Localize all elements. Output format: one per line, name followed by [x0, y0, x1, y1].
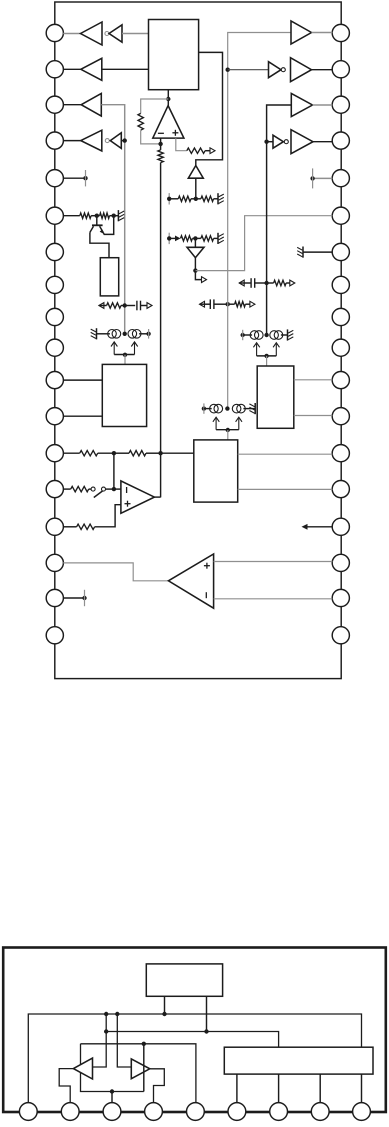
wire Q1 emitter to block B5 — [90, 232, 109, 257]
wire B4 to pin25 — [294, 415, 333, 417]
block B3 — [194, 440, 238, 502]
buffer A3 (row2 left) — [81, 58, 102, 80]
buffer A1 (row1 left) — [81, 22, 103, 45]
arrow CS1 down — [111, 342, 117, 355]
arrow out (C1) — [147, 303, 152, 309]
U3 minus label — [205, 592, 207, 598]
arrow out (N5) — [202, 277, 207, 283]
inverter bubble A2 — [105, 32, 109, 36]
block B7 (wide box) — [224, 1047, 373, 1074]
arrow CS5 down — [253, 343, 259, 356]
transistor Q1 base wire — [96, 216, 98, 226]
wire pin14 to R15 — [63, 488, 70, 490]
capacitor C2 — [251, 278, 255, 288]
op-amp U2 — [121, 481, 154, 513]
resistor R11 — [274, 280, 287, 285]
inverter bubble A10 — [281, 68, 285, 72]
stub bar N3-left — [168, 193, 170, 204]
wire CS join to block B4 — [266, 356, 268, 366]
bottom pin 3 — [103, 1103, 121, 1121]
wire pin1 to buffer A1 — [63, 33, 80, 35]
pin 35 (right) — [332, 61, 349, 78]
block B2 — [102, 364, 146, 426]
CS arrows join bar — [114, 354, 134, 356]
transistor Q1 collector arrow — [100, 229, 104, 234]
pin 23 (right) — [332, 481, 349, 498]
IC1 outer package outline — [55, 2, 341, 679]
wire A16 out to pin4 — [150, 1069, 165, 1103]
stub bar pin5 — [85, 170, 87, 186]
wire B4 to pin26 — [294, 379, 333, 381]
wire arrow-R10 — [99, 305, 107, 307]
pin 14 (left) — [46, 481, 63, 498]
pin 6 (left) — [46, 207, 63, 224]
pin 3 (left) — [46, 96, 63, 113]
resistor R13 — [80, 451, 98, 456]
pin 7 (left) — [46, 243, 63, 260]
wire R3 to minus node — [141, 130, 161, 144]
wire A14 to pin33 — [313, 141, 332, 143]
gray rail right (from row1) — [228, 33, 291, 409]
stub bar N4-left — [168, 233, 170, 244]
CS5/6 join bar — [257, 355, 277, 357]
pin 27 (right) — [332, 339, 349, 356]
transistor Q1 base bar — [92, 224, 103, 226]
pin 24 (right) — [332, 445, 349, 462]
wire B1 bottom to op-amp U1 — [167, 90, 169, 106]
wire R12-arrow — [245, 303, 250, 305]
buffer A4 (row3 left) — [81, 93, 101, 116]
pin 36 (right) — [332, 24, 349, 41]
current source CS1 — [108, 330, 121, 339]
wire pin2 to buffer A3 — [63, 68, 81, 70]
op-amp U3 — [168, 554, 213, 608]
pin 5 (left) — [46, 170, 63, 187]
pin 4 (left) — [46, 132, 63, 149]
switch S1 lever — [94, 490, 104, 498]
stub bar pin17 — [84, 590, 86, 606]
current source CS5 — [250, 331, 263, 340]
stub bar CS2 end — [148, 329, 150, 339]
pin 10 (left) — [46, 339, 63, 356]
resistor R8 — [181, 236, 193, 241]
wire N5 to pin31 — [195, 216, 332, 271]
resistor R10 — [107, 303, 121, 308]
wire drop to bottom rail — [143, 1044, 145, 1092]
bottom rail wire — [81, 1044, 144, 1092]
node CS join — [123, 353, 127, 357]
inverter bubble A13 — [284, 140, 288, 144]
node mid-CS left — [202, 406, 206, 410]
capacitor C1 — [137, 301, 141, 311]
wire mid-CS a — [204, 408, 212, 410]
U1 plus label — [172, 130, 178, 136]
wire pin13 to R13 — [63, 452, 79, 454]
arrow into pin22 — [302, 524, 308, 530]
node bus1-V2 — [115, 1012, 119, 1016]
bottom pin 7 — [270, 1103, 288, 1121]
arrow out (row304) — [250, 301, 255, 307]
inverter A10 (row2 right) — [269, 62, 282, 78]
resistor R1 — [80, 213, 91, 218]
node N3-left — [167, 197, 171, 201]
wire A4 down long gray rail — [101, 105, 124, 334]
wire G5-CS1 — [97, 333, 110, 335]
pin 30 (right) — [332, 243, 349, 260]
wire rail to C1 — [125, 305, 136, 307]
bottom pin 6 — [228, 1103, 246, 1121]
pin 33 (right) — [332, 132, 349, 149]
wire pin11 to B2 — [63, 379, 102, 381]
node bus2-V1 — [104, 1029, 108, 1033]
wire U1 minus input — [160, 138, 162, 144]
wire pin4 to buffer A5 — [63, 140, 81, 142]
node bus1-B6 — [162, 1012, 166, 1016]
wire pin36-row5 stub — [313, 177, 333, 179]
node bus1-V1 — [104, 1012, 108, 1016]
wire V2 to right buffer — [117, 1014, 131, 1067]
wire CS join to block B3 — [227, 430, 229, 440]
capacitor C3 — [210, 299, 214, 309]
wire CS2-stub — [139, 333, 149, 335]
wire R10 to rail — [121, 305, 125, 307]
block B1 — [149, 20, 199, 90]
wire U2 output — [154, 496, 160, 498]
inverter A6 (row4 left) — [110, 133, 121, 149]
transistor Q1 collector — [100, 226, 104, 232]
diode arrow D1 — [175, 236, 181, 242]
U3 plus label — [204, 563, 210, 569]
resistor R7 — [201, 196, 214, 201]
inverter bubble A6 — [105, 139, 109, 143]
wire N4 to buffer A8 — [194, 238, 196, 247]
node CS row left — [123, 332, 127, 336]
wire B3 to pin24 — [238, 453, 333, 455]
stub bar row5 right — [312, 168, 314, 188]
node N2 — [112, 214, 116, 218]
wire R7 to ground — [214, 198, 218, 200]
wire Q1 collector to N2 — [103, 216, 114, 235]
wire pin17 stub — [63, 597, 84, 599]
wire R1-R2 — [91, 215, 100, 217]
wire R15 to switch — [89, 488, 91, 490]
node row5 right — [310, 176, 314, 180]
wire R13 to node — [98, 452, 114, 454]
wire V1 to left buffer — [93, 1014, 107, 1067]
bottom pin 1 — [19, 1103, 37, 1121]
node U1 minus — [158, 142, 162, 146]
node row4/gray rail — [123, 138, 127, 142]
wire CS join to block B2 — [124, 355, 126, 365]
pin 25 (right) — [332, 408, 349, 425]
U2 minus label — [126, 487, 128, 493]
wire row13 to B3 — [161, 452, 194, 454]
wire N3a — [169, 198, 178, 200]
wire A15 out to pin2 — [59, 1069, 73, 1103]
buffer A7 (pointing up) — [188, 166, 203, 179]
bottom pin 5 — [187, 1103, 205, 1121]
transistor Q1 emitter — [90, 226, 94, 232]
pin 29 (right) — [332, 276, 349, 293]
wire right-CS a — [243, 334, 252, 336]
ground G3 — [218, 233, 224, 244]
pin 12 (left) — [46, 408, 63, 425]
op-amp U1 — [153, 106, 184, 139]
wire U3 plus to pin21 — [214, 561, 333, 563]
current source CS3 — [210, 404, 223, 413]
wire pin3 stub — [111, 1092, 113, 1104]
wire R8-N4 — [192, 237, 201, 239]
node pin5 — [83, 176, 87, 180]
pin 26 (right) — [332, 372, 349, 389]
buffer A11 (row2 right) — [291, 58, 312, 82]
wire R11-arrow — [286, 282, 290, 284]
pin 13 (left) — [46, 445, 63, 462]
buffer A15 (left) — [73, 1058, 92, 1079]
wire U1 plus input — [176, 138, 187, 151]
node bottom rail pin3 — [110, 1089, 114, 1093]
bus2 wire — [106, 1032, 278, 1048]
node row2-right rail — [226, 68, 230, 72]
ground G1 — [118, 210, 124, 221]
arrow CS2 down — [131, 342, 137, 355]
resistor R5 — [187, 148, 205, 153]
resistor R9 — [201, 236, 214, 241]
arrow in (left row) — [99, 303, 104, 309]
arrow in (row304) — [200, 301, 205, 307]
wire node-R12 — [228, 303, 235, 305]
wire A12 to pin34 — [313, 104, 333, 106]
wire pin30 to ground — [303, 251, 332, 253]
pin 9 (left) — [46, 308, 63, 325]
buffer A9 (row1 right) — [291, 21, 312, 44]
resistor R12 — [235, 302, 246, 307]
node N4-left — [167, 236, 171, 240]
node left-rail-C1 — [123, 303, 127, 307]
pin 15 (left) — [46, 518, 63, 535]
ground G2 — [218, 193, 224, 204]
pin 19 (right) — [332, 627, 349, 644]
wire R4 top — [160, 144, 162, 150]
node fb2 — [158, 451, 162, 455]
node line3 drop — [142, 1042, 146, 1046]
buffer A12 (row3 right) — [291, 93, 312, 116]
long rail minus-to-U2 — [160, 163, 162, 498]
buffer A14 (row4 right) — [291, 130, 313, 154]
pin 20 (right) — [332, 589, 349, 606]
pin 21 (right) — [332, 554, 349, 571]
wire R6-N3 — [191, 198, 201, 200]
arrow out (R5) — [210, 148, 215, 154]
node gray-rail-304 — [226, 302, 230, 306]
wire B7 to pin8 — [319, 1074, 321, 1103]
wire R2 to ground — [110, 215, 119, 217]
stub bar right-CS left — [242, 330, 244, 340]
wire B6 to bus2 — [206, 996, 208, 1031]
wire A6 input junction — [121, 140, 124, 142]
wire U2 plus input — [95, 505, 121, 527]
pin 17 (left) — [46, 589, 63, 606]
wire node to inverter A13 — [267, 141, 273, 143]
pin 34 (right) — [332, 96, 349, 113]
wire B3 to pin23 — [238, 488, 333, 490]
arrow in (row283) — [239, 280, 244, 286]
wire A7 to row N3 — [195, 178, 197, 199]
node pin17 — [82, 596, 86, 600]
wire pin22 arrow — [308, 526, 333, 528]
resistor R16 — [77, 524, 95, 529]
node mid-CS rail — [225, 406, 229, 410]
pin 32 (right) — [332, 170, 349, 187]
wire pin16 to U3 output — [63, 563, 168, 581]
IC2 outer package outline — [3, 948, 386, 1113]
node right-CS rail — [264, 333, 268, 337]
bottom pin 2 — [61, 1103, 79, 1121]
node row4-right rail — [264, 140, 268, 144]
wire C3 to gray rail — [214, 303, 228, 305]
node rail283 — [264, 281, 268, 285]
pin 11 (left) — [46, 372, 63, 389]
block B6 (top box) — [146, 964, 222, 996]
bottom pin 8 — [311, 1103, 329, 1121]
wire row3 input + dark rail — [267, 105, 292, 335]
resistor R14 — [129, 451, 146, 456]
wire CS4 to ground — [243, 408, 255, 410]
wire B7 to pin7 — [278, 1074, 280, 1103]
pin 8 (left) — [46, 276, 63, 293]
wire pin6 to R1 — [63, 215, 80, 217]
resistor R3 (U1 feedback) — [138, 113, 143, 130]
wire pin12 to B2 — [63, 415, 102, 417]
CS3/4 join bar — [216, 429, 239, 431]
bottom pin 9 — [353, 1103, 371, 1121]
pin 2 (left) — [46, 61, 63, 78]
ground G6 (at B4 edge) — [249, 403, 255, 414]
wire B6 to bus1 — [164, 996, 166, 1014]
pin 16 (left) — [46, 554, 63, 571]
wire A2 to block B1 — [122, 33, 149, 35]
line3 wire — [81, 1044, 196, 1103]
wire arrow-C3 — [200, 303, 211, 305]
switch S1 contact b — [102, 487, 106, 491]
resistor R6 — [178, 196, 191, 201]
wire B7 to pin6 — [236, 1074, 238, 1103]
arrow CS3 down — [213, 417, 219, 430]
node right-CS left — [241, 333, 245, 337]
inverter A2 (row1 left) — [109, 25, 122, 42]
wire node to R14 — [114, 452, 129, 454]
wire A3 to block B1 — [102, 68, 149, 70]
wire fb vertical — [113, 453, 115, 489]
node B1-U1 — [166, 97, 170, 101]
node CS2 end — [146, 332, 150, 336]
wire B7 to pin9 — [361, 1074, 363, 1103]
node CS3/4 join — [226, 428, 230, 432]
wire pin5 stub — [63, 177, 85, 179]
block B5 — [100, 258, 118, 296]
current source CS4 — [232, 404, 245, 413]
wire C2 to node — [255, 282, 267, 284]
pin 22 (right) — [332, 518, 349, 535]
switch S1 contact a — [91, 487, 95, 491]
wire U3 minus to pin20 — [214, 598, 333, 600]
wire switch to minus — [106, 488, 121, 490]
arrow out (row283) — [290, 280, 295, 286]
wire B1 right to limiter — [196, 52, 223, 165]
wire R5 to arrow — [205, 150, 210, 152]
U2 plus label — [125, 501, 131, 507]
node fb1 — [112, 451, 116, 455]
ground G4 (pin30) — [297, 247, 303, 258]
wire R9 to ground — [214, 237, 218, 239]
wire R14 to node2 — [146, 452, 161, 454]
arrow CS6 down — [273, 343, 279, 356]
pin 28 (right) — [332, 308, 349, 325]
pin 1 (left) — [46, 24, 63, 41]
U1 minus label — [158, 132, 164, 134]
wire CS6 to ground — [281, 334, 288, 336]
node N3 — [194, 197, 198, 201]
node CS5/6 join — [264, 354, 268, 358]
buffer A8 (pointing down) — [187, 247, 204, 257]
buffer A5 (row4 left) — [81, 130, 102, 151]
inverter A13 (row4 right) — [273, 135, 283, 148]
bottom pin 4 — [145, 1103, 163, 1121]
resistor R4 — [158, 150, 163, 163]
wire node-R11 — [267, 282, 274, 284]
node N4 — [193, 236, 197, 240]
resistor R2 — [100, 213, 110, 218]
wire pin15 to R16 — [63, 526, 76, 528]
resistor R15 — [71, 486, 89, 491]
current source CS2 — [128, 330, 141, 339]
wire pin3 to buffer A4 — [63, 104, 81, 106]
wire N4a — [169, 237, 175, 239]
node N1 — [95, 214, 99, 218]
wire rail to inverter A10 — [228, 69, 269, 71]
pin 18 (left) — [46, 627, 63, 644]
node N5 — [193, 268, 197, 272]
wire A9 to pin36 — [312, 32, 333, 34]
node bus2-B6 — [204, 1029, 208, 1033]
current source CS6 — [270, 331, 283, 340]
bus1 wire — [28, 1014, 361, 1103]
wire A11 to pin35 — [312, 69, 333, 71]
stub bar mid-CS left — [203, 403, 205, 413]
ground G7 (right CS row) — [288, 329, 294, 340]
wire arrow-C2 — [239, 282, 251, 284]
pin 31 (right) — [332, 207, 349, 224]
wire A8 to node N5 — [194, 258, 196, 271]
U1 feedback wire — [141, 99, 169, 113]
buffer A16 (right) — [131, 1059, 150, 1079]
wire N5 stub arrow — [195, 271, 201, 280]
node minus U2 — [112, 487, 116, 491]
wire C1 to arrow — [141, 305, 148, 307]
block B4 — [257, 366, 294, 428]
ground G5 (left CS row) — [91, 328, 97, 339]
arrow CS4 down — [236, 417, 242, 430]
